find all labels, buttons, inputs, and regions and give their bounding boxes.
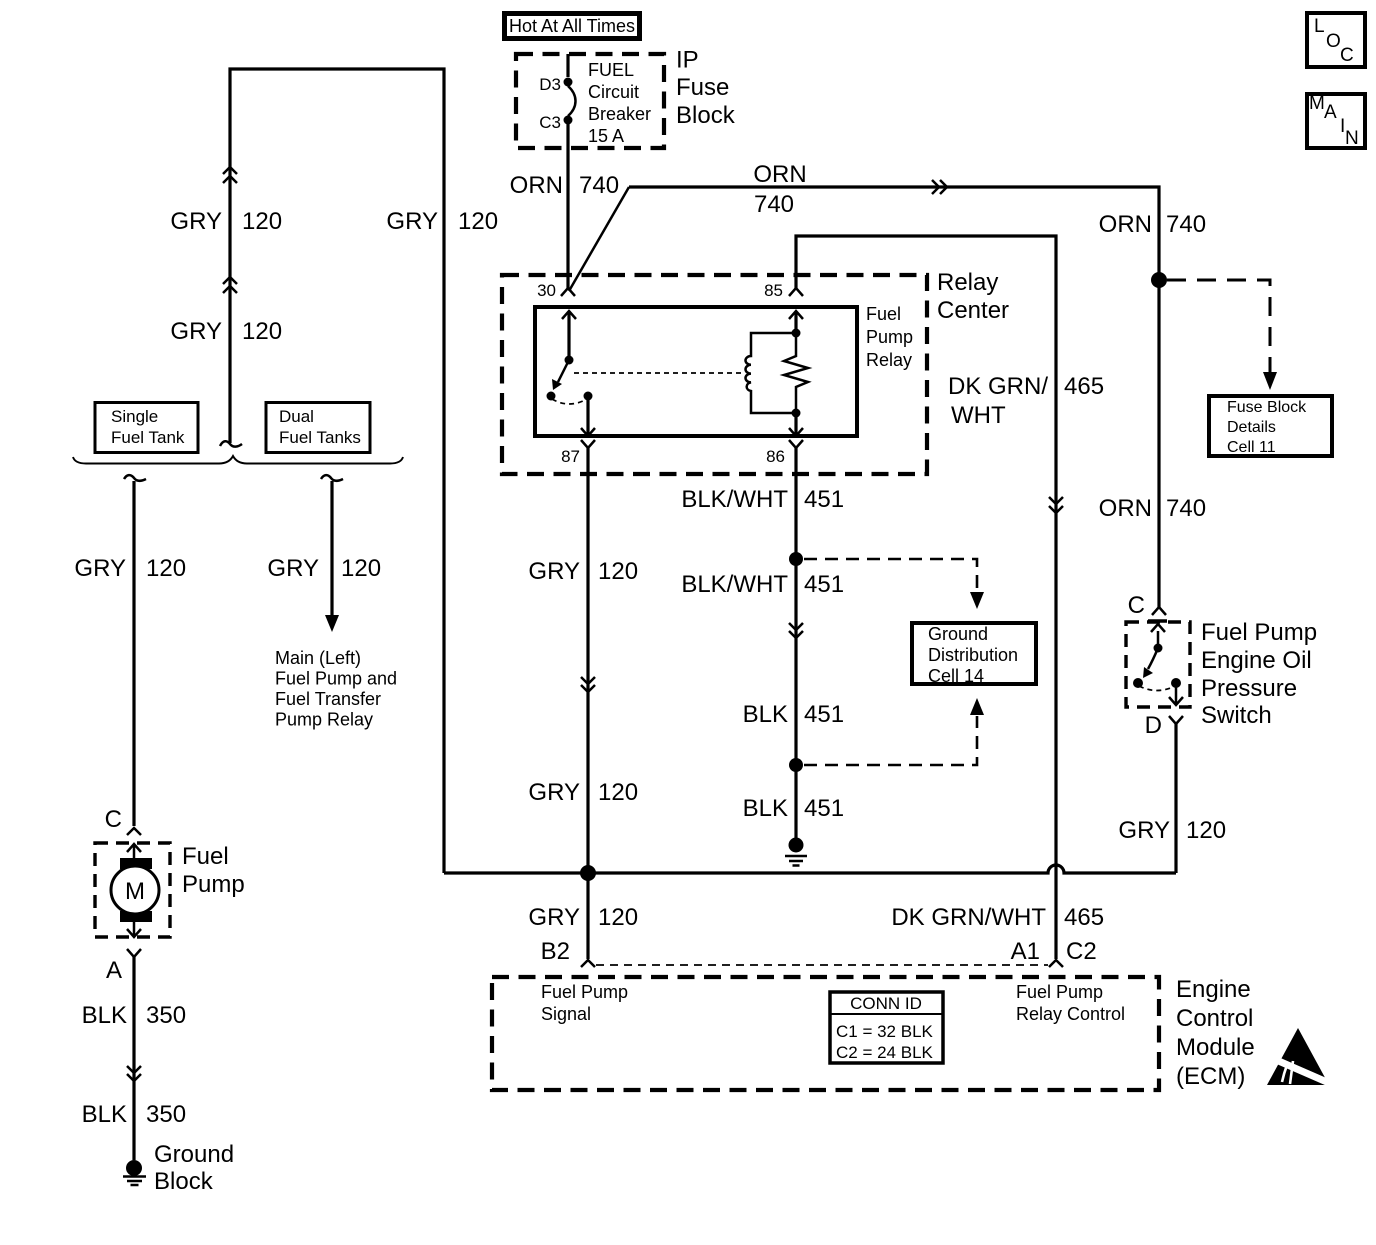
- svg-text:Ground: Ground: [928, 624, 988, 644]
- svg-text:120: 120: [242, 208, 282, 235]
- pigtail right: [321, 475, 343, 481]
- svg-text:GRY: GRY: [170, 208, 222, 235]
- svg-text:Dual: Dual: [279, 407, 314, 426]
- svg-text:D3: D3: [539, 75, 561, 94]
- pin 87 connector: [581, 440, 595, 448]
- svg-text:M: M: [125, 878, 145, 905]
- junction dot splice: [580, 865, 596, 881]
- svg-text:BLK/WHT: BLK/WHT: [681, 571, 788, 598]
- svg-text:Relay: Relay: [866, 350, 912, 370]
- svg-text:465: 465: [1064, 373, 1104, 400]
- switch arrow up: [1151, 624, 1165, 646]
- wire BLK/WHT 451 pin 86 to ground: [794, 448, 797, 841]
- pin 85 connector: [789, 288, 803, 296]
- svg-text:85: 85: [764, 281, 783, 300]
- svg-text:GRY: GRY: [528, 779, 580, 806]
- svg-text:Pump: Pump: [866, 327, 913, 347]
- svg-text:BLK: BLK: [743, 795, 788, 822]
- junction dot: [789, 552, 803, 566]
- svg-text:C: C: [105, 806, 122, 833]
- svg-text:Fuel Tanks: Fuel Tanks: [279, 428, 361, 447]
- svg-text:30: 30: [537, 281, 556, 300]
- svg-text:GRY: GRY: [74, 555, 126, 582]
- chevrons on GRY wire: [223, 167, 237, 293]
- svg-text:DK GRN/WHT: DK GRN/WHT: [891, 904, 1046, 931]
- svg-text:ORN: ORN: [1099, 495, 1152, 522]
- junction dots coil: [792, 329, 801, 338]
- svg-text:A1: A1: [1011, 938, 1040, 965]
- svg-text:Pump Relay: Pump Relay: [275, 710, 373, 730]
- svg-text:C: C: [1340, 45, 1354, 66]
- switch arm: [1148, 648, 1158, 669]
- dashed actuator link: [574, 372, 741, 374]
- relay switch arrow up: [567, 312, 570, 359]
- svg-text:B2: B2: [541, 938, 570, 965]
- relay resistor: [784, 333, 808, 413]
- splice hook at tank wire end: [220, 441, 242, 446]
- motor circle M: [111, 866, 159, 914]
- svg-text:N: N: [1345, 128, 1359, 149]
- chevrons down on 465 wire: [1049, 497, 1063, 513]
- svg-text:Fuel Pump: Fuel Pump: [541, 982, 628, 1002]
- svg-text:451: 451: [804, 571, 844, 598]
- switch arm: [558, 360, 569, 382]
- svg-text:GRY: GRY: [267, 555, 319, 582]
- dashed reference from ground bottom arrow up: [804, 716, 977, 765]
- svg-text:Switch: Switch: [1201, 702, 1272, 729]
- svg-text:120: 120: [242, 318, 282, 345]
- svg-text:GRY: GRY: [170, 318, 222, 345]
- svg-text:Single: Single: [111, 407, 158, 426]
- switch contact bar: [1148, 619, 1167, 623]
- svg-text:IP: IP: [676, 47, 699, 74]
- svg-text:350: 350: [146, 1002, 186, 1029]
- pin 86 connector: [789, 440, 803, 448]
- svg-text:C3: C3: [539, 113, 561, 132]
- motor brush top: [120, 858, 152, 869]
- arrow down to pin 86: [794, 413, 797, 434]
- reference box LOC: [1307, 13, 1365, 67]
- svg-text:L: L: [1314, 16, 1325, 37]
- contact dot left: [547, 392, 556, 401]
- connector A1/C2: [1049, 960, 1063, 967]
- svg-text:Fuel Pump: Fuel Pump: [1016, 982, 1103, 1002]
- svg-text:ORN: ORN: [510, 172, 563, 199]
- reference box Fuse Block Details Cell 11: [1209, 396, 1332, 456]
- svg-text:GRY: GRY: [1118, 817, 1170, 844]
- svg-text:Cell 14: Cell 14: [928, 666, 984, 686]
- chevrons down on 451 wire: [789, 623, 803, 638]
- relay coil: [746, 333, 793, 413]
- arrowhead down: [1263, 372, 1277, 390]
- pump arrow in: [127, 844, 141, 858]
- wire GRY from D: [1174, 724, 1177, 873]
- dashed contact arc: [552, 399, 587, 404]
- svg-text:ORN: ORN: [1099, 211, 1152, 238]
- fuel pump relay box: [535, 307, 857, 436]
- svg-text:Block: Block: [676, 102, 736, 129]
- svg-text:ORN: ORN: [753, 161, 806, 188]
- svg-text:350: 350: [146, 1101, 186, 1128]
- svg-text:120: 120: [146, 555, 186, 582]
- power label Hot At All Times: [505, 14, 640, 39]
- svg-text:Fuel: Fuel: [866, 304, 901, 324]
- ground block symbol: [126, 1160, 142, 1176]
- switch contact dots: [1133, 678, 1143, 688]
- relay center dashed box: [502, 275, 927, 474]
- svg-text:Fuse Block: Fuse Block: [1227, 399, 1307, 416]
- circuit breaker FUEL 15 A: [566, 54, 569, 77]
- svg-text:Fuel Pump and: Fuel Pump and: [275, 669, 397, 689]
- wire to B2: [586, 873, 589, 959]
- svg-text:Control: Control: [1176, 1005, 1253, 1032]
- connector B2: [581, 960, 595, 967]
- svg-text:120: 120: [598, 779, 638, 806]
- junction dot ORN: [1151, 272, 1167, 288]
- motor brush bottom: [120, 911, 152, 922]
- svg-text:GRY: GRY: [528, 904, 580, 931]
- svg-text:Hot At All Times: Hot At All Times: [509, 16, 635, 36]
- svg-text:FUEL: FUEL: [588, 60, 634, 80]
- svg-text:Fuel: Fuel: [182, 843, 229, 870]
- CONN ID table: [830, 992, 943, 1063]
- svg-text:Breaker: Breaker: [588, 104, 651, 124]
- svg-text:Pressure: Pressure: [1201, 675, 1297, 702]
- svg-text:740: 740: [754, 191, 794, 218]
- IP fuse block dashed box: [516, 54, 664, 148]
- switch output arrow: [1169, 683, 1183, 705]
- svg-text:Center: Center: [937, 297, 1009, 324]
- dashed switch arc: [1139, 686, 1175, 691]
- svg-text:Fuel Transfer: Fuel Transfer: [275, 689, 381, 709]
- pigtail left: [124, 475, 146, 481]
- dashed reference to Ground Distribution top: [804, 559, 977, 591]
- svg-text:465: 465: [1064, 904, 1104, 931]
- svg-text:BLK: BLK: [743, 701, 788, 728]
- wire BLK 350: [132, 957, 135, 1160]
- svg-text:BLK: BLK: [82, 1002, 127, 1029]
- svg-text:(ECM): (ECM): [1176, 1063, 1245, 1090]
- svg-text:87: 87: [561, 447, 580, 466]
- fuel pump dashed box: [95, 843, 170, 937]
- svg-text:Module: Module: [1176, 1034, 1255, 1061]
- contact dot right: [584, 392, 593, 401]
- pressure switch dashed box: [1126, 622, 1190, 707]
- svg-text:C1 = 32 BLK: C1 = 32 BLK: [836, 1022, 934, 1041]
- svg-text:BLK: BLK: [82, 1101, 127, 1128]
- svg-text:740: 740: [1166, 495, 1206, 522]
- wire DK GRN/WHT 465: [796, 236, 1056, 959]
- svg-text:Ground: Ground: [154, 1141, 234, 1168]
- svg-text:86: 86: [766, 447, 785, 466]
- svg-text:A: A: [1324, 102, 1337, 123]
- switch pivot dot: [1154, 644, 1163, 653]
- reference box Ground Distribution Cell 14: [912, 623, 1036, 684]
- svg-text:A: A: [106, 957, 122, 984]
- connector A: [127, 949, 141, 957]
- wire GRY 120 pin 87 down: [586, 448, 589, 873]
- chevrons down: [581, 677, 595, 692]
- svg-text:120: 120: [341, 555, 381, 582]
- svg-text:GRY: GRY: [386, 208, 438, 235]
- svg-text:CONN ID: CONN ID: [850, 994, 922, 1013]
- svg-text:GRY: GRY: [528, 558, 580, 585]
- connector C switch: [1152, 607, 1166, 615]
- svg-text:Relay Control: Relay Control: [1016, 1004, 1125, 1024]
- connector D: [1169, 716, 1183, 724]
- svg-text:Signal: Signal: [541, 1004, 591, 1024]
- svg-text:Fuse: Fuse: [676, 74, 729, 101]
- brace: [73, 456, 403, 464]
- svg-text:DK GRN/: DK GRN/: [948, 373, 1048, 400]
- wire GRY 120 tank loop: [230, 69, 444, 873]
- svg-text:120: 120: [598, 558, 638, 585]
- component box Dual Fuel Tanks: [266, 403, 370, 453]
- wire to pin 87 arrow down: [586, 396, 589, 434]
- wire ORN 740 horizontal and right vertical: [629, 187, 1159, 607]
- svg-text:Pump: Pump: [182, 871, 245, 898]
- svg-text:Relay: Relay: [937, 269, 998, 296]
- wire GRY horizontal with hop: [444, 865, 1176, 873]
- svg-text:C2 = 24 BLK: C2 = 24 BLK: [836, 1043, 934, 1062]
- reference box MAIN: [1307, 94, 1365, 148]
- pivot dot: [565, 356, 574, 365]
- pin 30 connector: [561, 288, 575, 296]
- svg-text:740: 740: [1166, 211, 1206, 238]
- svg-text:740: 740: [579, 172, 619, 199]
- svg-text:120: 120: [598, 904, 638, 931]
- arrow up to pin 85: [794, 312, 797, 333]
- svg-text:451: 451: [804, 701, 844, 728]
- svg-text:Fuel Pump: Fuel Pump: [1201, 619, 1317, 646]
- svg-text:Engine: Engine: [1176, 976, 1251, 1003]
- junction dot 2: [789, 758, 803, 772]
- svg-text:Fuel Tank: Fuel Tank: [111, 428, 185, 447]
- svg-text:C2: C2: [1066, 938, 1097, 965]
- svg-text:C: C: [1128, 592, 1145, 619]
- ground symbol: [789, 838, 804, 853]
- wire ORN diagonal branch: [569, 187, 629, 291]
- chevrons down: [127, 1066, 141, 1081]
- svg-text:451: 451: [804, 486, 844, 513]
- svg-text:Block: Block: [154, 1168, 214, 1195]
- ECM dashed box: [492, 977, 1159, 1090]
- svg-text:M: M: [1309, 93, 1325, 114]
- svg-text:Cell 11: Cell 11: [1227, 439, 1276, 456]
- svg-text:Circuit: Circuit: [588, 82, 639, 102]
- svg-text:BLK/WHT: BLK/WHT: [681, 486, 788, 513]
- svg-text:120: 120: [1186, 817, 1226, 844]
- component box Single Fuel Tank: [95, 403, 198, 453]
- svg-text:O: O: [1326, 31, 1341, 52]
- svg-text:Main (Left): Main (Left): [275, 648, 361, 668]
- wire GRY 120 dual branch arrow: [330, 481, 333, 616]
- ESD sensitive symbol: [1267, 1028, 1329, 1085]
- chevrons right on ORN wire: [932, 180, 947, 194]
- wire GRY 120 single tank branch: [132, 481, 135, 826]
- svg-text:120: 120: [458, 208, 498, 235]
- svg-text:15 A: 15 A: [588, 126, 624, 146]
- ECM connector dashed line: [596, 964, 1048, 966]
- svg-text:D: D: [1145, 712, 1162, 739]
- svg-text:Details: Details: [1227, 419, 1276, 436]
- connector C pump: [127, 828, 141, 835]
- svg-text:Distribution: Distribution: [928, 645, 1018, 665]
- dashed reference line to Fuse Block Details: [1167, 280, 1270, 372]
- svg-text:451: 451: [804, 795, 844, 822]
- svg-text:WHT: WHT: [951, 402, 1006, 429]
- svg-text:Engine Oil: Engine Oil: [1201, 647, 1312, 674]
- pump arrow out: [127, 922, 141, 937]
